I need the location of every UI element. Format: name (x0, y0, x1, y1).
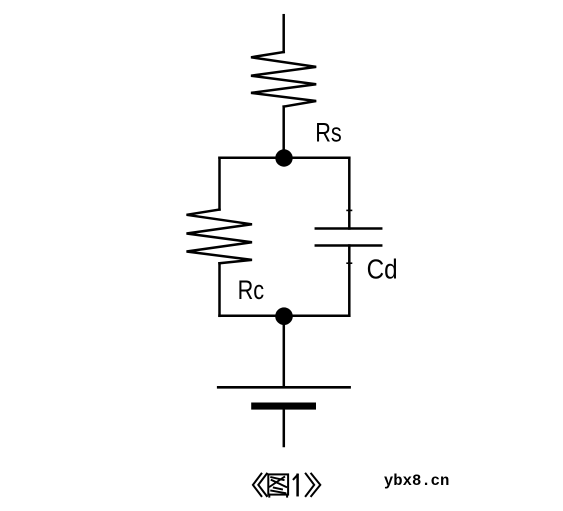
node A (top junction) (275, 149, 292, 166)
wire: right branch upper (348, 158, 351, 229)
caption digit 1 (294, 475, 298, 495)
svg-text:Rc: Rc (238, 275, 265, 305)
capacitor Cd top plate (316, 227, 381, 230)
wire: left branch lower (218, 263, 221, 316)
battery positive plate (long thin) (218, 386, 349, 389)
node B (bottom junction) (275, 307, 293, 325)
caption bracket 《 (left double angle) (253, 474, 267, 497)
wire: left branch upper (218, 158, 221, 210)
wire: bottom rail of parallel branch (220, 315, 350, 318)
caption character 图 (box of 囗 with corner feet) (268, 474, 288, 496)
svg-text:Rs: Rs (315, 117, 342, 147)
capacitor Cd bottom plate (316, 244, 381, 247)
wire: top rail of parallel branch (220, 157, 350, 160)
svg-text:ybx8.cn: ybx8.cn (384, 472, 450, 490)
wire: battery bottom lead (283, 410, 286, 446)
caption character 图 (inner strokes of 冬) (270, 477, 286, 493)
tick on right branch wire (lower) (347, 262, 351, 264)
wire: Rs to node A (282, 107, 285, 158)
resistor Rc (187, 210, 253, 264)
caption bracket 》 (right double angle) (306, 474, 321, 497)
wire: node B down to battery (283, 316, 286, 388)
wire: top lead into Rs (282, 15, 285, 52)
tick on right branch wire (upper) (347, 209, 351, 211)
battery negative plate (short thick) (251, 403, 316, 410)
resistor Rs (251, 52, 316, 107)
wire: right branch lower (348, 246, 351, 316)
svg-text:Cd: Cd (367, 253, 398, 284)
